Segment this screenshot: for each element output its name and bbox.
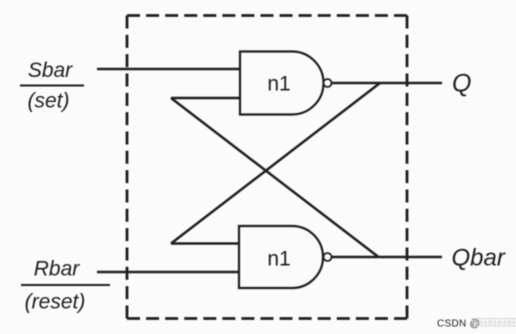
svg-text:Sbar: Sbar	[28, 59, 73, 82]
wire Q output	[332, 82, 443, 85]
wire cross-coupling diagonal from bottom gate input to Q node	[171, 83, 380, 244]
wire top-gate feedback input	[171, 97, 240, 100]
svg-text:n1: n1	[267, 248, 290, 271]
NAND gate n1 (bottom)	[239, 226, 323, 288]
svg-text:CSDN @: CSDN @	[437, 319, 480, 330]
svg-text:n1: n1	[267, 73, 290, 96]
svg-text:Qbar: Qbar	[452, 245, 506, 272]
wire Sbar input	[97, 68, 240, 71]
dashed enclosure box top edge	[127, 14, 407, 17]
fraction bar under Sbar	[20, 85, 84, 87]
wire cross-coupling diagonal from top gate input to Qbar node	[171, 98, 379, 257]
wire Rbar input	[97, 271, 240, 274]
dashed enclosure box left edge	[126, 16, 129, 319]
inverter bubble of top gate	[324, 79, 332, 87]
wire bottom-gate feedback input	[171, 242, 240, 245]
svg-text:(set): (set)	[28, 90, 70, 113]
inverter bubble of bottom gate	[324, 253, 332, 261]
wire Qbar output	[332, 256, 443, 259]
dashed enclosure box bottom edge	[127, 317, 407, 320]
dashed enclosure box right edge	[406, 16, 409, 319]
svg-text:(reset): (reset)	[25, 291, 86, 314]
svg-text:Rbar: Rbar	[34, 258, 81, 281]
svg-text:Q: Q	[452, 70, 471, 98]
NAND gate n1 (top)	[240, 52, 324, 115]
fraction bar under Rbar	[21, 284, 110, 286]
watermark CSDN	[437, 319, 516, 330]
